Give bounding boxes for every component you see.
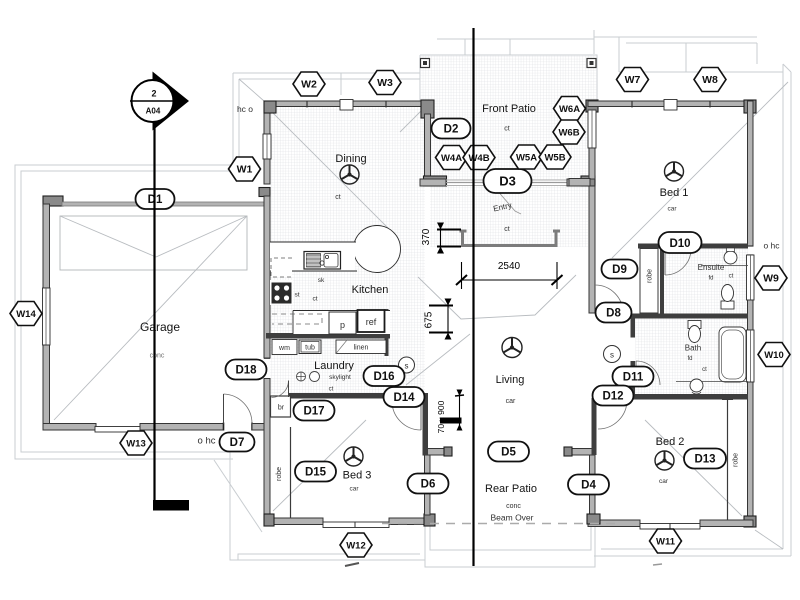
svg-text:wm: wm (278, 345, 290, 352)
hip bed1 from roof corner (612, 82, 788, 258)
door tag D17 (294, 401, 335, 421)
door tag D6 (408, 474, 449, 494)
window center ticks bed1 (631, 101, 633, 108)
front patio post right (587, 59, 596, 68)
entry leader line (496, 189, 521, 214)
window tag W10 (758, 343, 790, 367)
bathtub (719, 327, 746, 382)
rear wall left segment (423, 449, 451, 456)
rear wall left end cap (444, 447, 452, 456)
patio left wall (425, 114, 431, 180)
svg-text:robe: robe (276, 467, 283, 481)
svg-text:D12: D12 (602, 391, 623, 403)
entry return wall (569, 179, 590, 187)
door tag D18 (226, 360, 267, 380)
pantry box (329, 312, 356, 334)
bed1 bottom wall left of D10 (638, 244, 662, 249)
hip bed2 (645, 420, 742, 516)
door tag D14 (384, 387, 425, 407)
window W1 frame (263, 134, 271, 159)
rear patio beam dashed line (382, 523, 618, 525)
door tag D12 (593, 386, 634, 406)
garage envelope V right (156, 216, 247, 257)
WALLS (43, 100, 757, 530)
svg-text:W5B: W5B (544, 153, 565, 164)
lower cabinet band (293, 310, 390, 334)
front wall left segment (420, 179, 446, 186)
door D11 opening (630, 338, 636, 361)
dim 675 living edge (424, 299, 454, 340)
house left wall mid piece (264, 196, 270, 358)
window W6A W6B frame (588, 110, 596, 148)
svg-text:car: car (659, 478, 669, 485)
svg-text:70 x 900: 70 x 900 (436, 400, 446, 433)
svg-text:2: 2 (151, 89, 156, 99)
eave bottom right (601, 548, 783, 550)
svg-text:skylight: skylight (329, 374, 351, 381)
bed2 bottom wall left part (588, 520, 640, 527)
door D10 swing in ensuite (665, 249, 691, 275)
svg-text:conc: conc (506, 503, 521, 510)
house left wall top piece (264, 101, 270, 134)
front patio post left (421, 59, 430, 68)
laundry door leaf (288, 381, 290, 398)
patio top-left corner block (421, 100, 434, 118)
svg-text:linen: linen (354, 345, 369, 352)
living tray ceiling (418, 275, 576, 319)
window mullion W2-W3 (340, 100, 353, 111)
svg-text:W14: W14 (16, 309, 36, 320)
svg-text:ct: ct (312, 296, 317, 303)
door D17 br swing (272, 381, 289, 398)
laundry right wall (385, 309, 389, 356)
svg-text:D15: D15 (305, 467, 327, 479)
dim 2540 entry width (456, 261, 563, 289)
svg-text:Bed 2: Bed 2 (656, 436, 685, 448)
front patio slab edge (420, 55, 597, 101)
svg-text:hc o: hc o (237, 104, 253, 114)
svg-text:D6: D6 (421, 479, 436, 491)
HATCH-FLOORS (270, 55, 748, 395)
cooktop margin (270, 280, 293, 305)
bath basin (690, 379, 703, 392)
garage left wall upper (43, 204, 50, 288)
door tag D7 (220, 433, 255, 452)
ensuite bath divider wall (633, 314, 748, 319)
garage inner rectangle (60, 216, 247, 270)
svg-text:ct: ct (329, 387, 334, 393)
svg-text:A04: A04 (146, 107, 161, 116)
svg-text:Rear Patio: Rear Patio (485, 483, 537, 495)
stray dash under W12 (345, 563, 359, 566)
bed2 robe top nib (722, 399, 733, 401)
svg-text:Bath: Bath (685, 344, 701, 353)
window tag W1 (229, 157, 261, 181)
svg-text:D8: D8 (606, 308, 621, 320)
sink right bowl (324, 254, 338, 268)
front wall right segment (567, 179, 589, 186)
section marker diameter line (130, 100, 177, 102)
door D7 opening jambs (223, 423, 225, 431)
window W9 frame (747, 255, 755, 300)
right wall mid (748, 300, 754, 330)
bed3 bottom wall left part (264, 518, 323, 525)
svg-text:Living: Living (496, 374, 525, 386)
svg-text:br: br (278, 405, 285, 412)
section line 2 vertical (472, 28, 474, 566)
window tag W14 (10, 302, 42, 326)
bed3 robe line (290, 427, 292, 518)
rear patio slab edges (425, 449, 595, 567)
svg-text:robe: robe (647, 269, 654, 283)
door tag D9 (602, 260, 638, 279)
garage long diagonal (54, 216, 247, 420)
garage bottom wall stub right of D7 (252, 424, 264, 431)
door D12 swing into bed2 (598, 400, 627, 429)
svg-text:W4A: W4A (441, 153, 462, 164)
door tag D13 (684, 449, 726, 469)
kitchen island round end (354, 226, 401, 273)
door tag D1 (136, 189, 175, 209)
eave bottom under bed3/rear patio (214, 460, 262, 532)
svg-text:Beam Over: Beam Over (491, 513, 534, 523)
ceiling fan bed2 (655, 451, 674, 470)
window tag W11 (650, 529, 682, 553)
smoke alarm living (399, 357, 415, 373)
bed2 bottom wall right part (700, 520, 753, 527)
hatch bath (633, 317, 748, 395)
svg-text:W7: W7 (625, 74, 641, 86)
svg-text:D16: D16 (373, 371, 394, 383)
garage top-left corner (43, 196, 63, 206)
DOOR-ARCS (224, 189, 692, 430)
svg-text:Laundry: Laundry (314, 360, 354, 372)
rear wall right segment (565, 449, 593, 456)
ensuite toilet (721, 301, 734, 309)
DIMENSIONS (421, 223, 563, 434)
svg-text:2540: 2540 (498, 261, 521, 272)
hatch ensuite (663, 248, 748, 315)
dining top wall band (264, 101, 434, 107)
rear patio right wall (590, 455, 596, 515)
svg-text:W4B: W4B (468, 153, 489, 164)
svg-text:D14: D14 (393, 392, 415, 404)
door tag D2 (432, 119, 471, 139)
FAN-SYMBOLS (340, 162, 684, 470)
garage left wall lower (43, 345, 50, 426)
ensuite basin counter (701, 265, 748, 267)
section line 1 end bar (153, 500, 189, 511)
kitchen sink unit (304, 252, 341, 270)
svg-text:s: s (405, 362, 409, 371)
laundry tub box (299, 340, 321, 354)
svg-text:tub: tub (305, 345, 315, 352)
bed1 bottom wall right of D10 (690, 244, 748, 249)
svg-text:fd: fd (687, 356, 692, 362)
garage envelope V left (60, 216, 156, 257)
corner nib right of D14 (417, 393, 428, 399)
living right wall (592, 398, 597, 455)
hip corner bottom right eave (755, 530, 783, 549)
ROOM-TEXT (140, 103, 780, 523)
window tag W4A (436, 146, 468, 170)
svg-text:Kitchen: Kitchen (352, 284, 389, 296)
svg-text:fd: fd (708, 276, 713, 282)
svg-text:D10: D10 (669, 238, 690, 250)
entry step (460, 231, 561, 246)
hatch entry (430, 185, 588, 247)
HIP-LINES (239, 79, 788, 549)
right wall lower (748, 382, 754, 526)
door D11 swing in bath (636, 361, 660, 385)
svg-text:ref: ref (366, 317, 377, 327)
eave right side verticals (782, 64, 784, 549)
cooktop (272, 283, 292, 304)
window W13 offset sash (95, 427, 141, 433)
svg-text:D7: D7 (230, 437, 245, 449)
hip bed3 (273, 420, 366, 511)
svg-text:p: p (340, 320, 345, 330)
section marker triangle (153, 72, 190, 131)
svg-text:W3: W3 (377, 77, 393, 89)
window tag W2 (293, 72, 325, 96)
window tag W4B (463, 146, 495, 170)
svg-text:o hc: o hc (763, 241, 780, 251)
hip corner top left eave (239, 79, 264, 101)
svg-text:W8: W8 (702, 74, 718, 86)
svg-text:robe: robe (733, 453, 740, 467)
svg-text:car: car (349, 486, 359, 493)
bed1 top wall band (588, 101, 753, 107)
bath hall wall upper (631, 314, 636, 338)
linen cupboard (336, 340, 386, 354)
svg-text:ct: ct (335, 194, 341, 201)
svg-text:W11: W11 (656, 537, 676, 548)
svg-text:Dining: Dining (335, 153, 366, 165)
bed3 bottom wall right part (389, 518, 433, 525)
svg-text:675: 675 (424, 311, 435, 328)
laundry top wall (266, 333, 390, 339)
svg-text:D4: D4 (581, 480, 596, 492)
house left wall bottom piece (264, 379, 270, 527)
garage door D1 leaf line (62, 202, 264, 206)
svg-text:car: car (667, 206, 677, 213)
svg-text:370: 370 (421, 228, 432, 245)
svg-text:Front Patio: Front Patio (482, 103, 536, 115)
o hc opening right wall (747, 245, 754, 247)
door D3 threshold line (446, 179, 567, 181)
bath bottom bed2 top wall (631, 394, 749, 400)
bath toilet (688, 321, 701, 329)
kitchen sink counter (270, 242, 355, 271)
bed3 top wall (288, 393, 387, 399)
door tag D5 (488, 442, 529, 462)
svg-text:D9: D9 (612, 264, 627, 276)
ceiling fan bed1 (665, 162, 684, 181)
eave outline garage block inner (21, 79, 239, 452)
door tag D16 (364, 366, 405, 386)
window tag W5A (511, 145, 543, 169)
eave top right block (619, 71, 783, 73)
svg-text:Ensuite: Ensuite (698, 263, 725, 272)
ensuite left wall (660, 249, 664, 315)
door D8 swing in hall (595, 285, 623, 313)
svg-text:D3: D3 (499, 174, 516, 189)
svg-text:o hc: o hc (198, 436, 216, 447)
svg-text:ct: ct (504, 226, 510, 233)
svg-text:D5: D5 (501, 447, 516, 459)
window W10 frame (747, 330, 755, 382)
skylight circles (297, 372, 306, 381)
window tag W5B (539, 145, 571, 169)
kitchen bench niche dashed (271, 258, 292, 277)
bed1 left wall top corner (586, 100, 598, 112)
window mullion W7-W8 (664, 100, 677, 111)
fridge box (358, 310, 385, 332)
house left wall below W1 (264, 159, 270, 184)
door tag D4 (568, 475, 609, 495)
svg-text:s: s (610, 351, 614, 360)
window tag W6A (554, 97, 586, 121)
window tag W8 (694, 68, 726, 92)
svg-text:Garage: Garage (140, 320, 180, 334)
hatch front patio lower / entry court (430, 102, 589, 180)
window tag W9 (755, 266, 787, 290)
dishwasher dashed (272, 314, 322, 324)
house bottom-right corner (744, 516, 756, 527)
svg-text:D18: D18 (235, 365, 257, 377)
window tag W3 (369, 71, 401, 95)
window tag W13 (120, 431, 152, 455)
rear wall right end cap (564, 447, 572, 456)
svg-text:sk: sk (318, 277, 325, 284)
window center ticks (306, 101, 308, 108)
bed3 bottom-right corner (424, 514, 435, 526)
hip hall to living (406, 334, 470, 385)
section marker circle (132, 80, 174, 122)
eave over front patio (437, 38, 594, 40)
bed3 bottom-left corner (264, 514, 274, 526)
ensuite basin (724, 251, 737, 264)
dim 70x900 niche (436, 390, 464, 434)
svg-text:Bed 3: Bed 3 (343, 470, 372, 482)
door D14 swing into bed3 (392, 401, 421, 430)
window tag W12 (340, 533, 372, 557)
window tag W7 (617, 68, 649, 92)
svg-text:D13: D13 (694, 454, 715, 466)
svg-text:W13: W13 (126, 439, 146, 450)
svg-text:Bed 1: Bed 1 (660, 187, 689, 199)
bed1 left wall upper (589, 148, 595, 179)
door tag D11 (613, 367, 654, 387)
hatch dining kitchen laundry hall (270, 106, 425, 394)
svg-text:D2: D2 (444, 124, 459, 136)
bed2 robe line (727, 400, 729, 521)
svg-text:D17: D17 (303, 406, 324, 418)
bed1 left wall mid (589, 186, 595, 313)
svg-text:W5A: W5A (516, 153, 537, 164)
window tag W6B (553, 120, 585, 144)
svg-text:W6A: W6A (559, 104, 580, 115)
front wall right corner (581, 176, 595, 186)
ceiling fan living (502, 338, 522, 358)
smoke alarm hall bath (604, 346, 621, 363)
bath hall wall lower (631, 361, 636, 395)
svg-text:ct: ct (702, 367, 707, 373)
hip entry left (400, 111, 421, 132)
door tag D10 (659, 232, 702, 253)
stray dash under W11 (653, 564, 662, 565)
house top-right corner (744, 100, 756, 113)
SECTION-LINES (130, 28, 474, 566)
door D18 opening (264, 358, 270, 360)
svg-text:ct: ct (504, 126, 510, 133)
svg-text:car: car (506, 398, 516, 405)
window W14 frame (43, 288, 51, 345)
svg-text:conc: conc (150, 353, 165, 360)
section line 1 vertical (153, 121, 155, 503)
svg-text:D11: D11 (623, 372, 644, 384)
door tag D15 (295, 462, 336, 482)
TAGS (10, 68, 790, 558)
FIXTURES (270, 226, 748, 567)
window W11 offset sash (640, 524, 700, 530)
svg-text:st: st (294, 292, 299, 299)
bed1 robe (640, 249, 658, 314)
ceiling fan dining (340, 165, 359, 184)
door tag D8 (596, 303, 632, 323)
eave top over dining (233, 72, 420, 74)
window W12 offset sash (323, 522, 389, 528)
eave outline garage block outer (15, 73, 233, 459)
svg-text:W12: W12 (346, 541, 366, 552)
hatch front patio upper (420, 55, 597, 102)
svg-text:W9: W9 (763, 273, 779, 285)
svg-text:W6B: W6B (558, 128, 579, 139)
right wall upper (748, 101, 754, 246)
svg-text:ct: ct (729, 274, 734, 280)
door tag D3 (484, 169, 532, 193)
bath basin counter (676, 381, 748, 383)
svg-text:W1: W1 (237, 164, 253, 176)
patio left wall bottom corner (424, 176, 447, 186)
laundry wm box (272, 340, 297, 355)
rear patio left wall (425, 455, 431, 515)
garage bottom wall right (140, 424, 224, 431)
ceiling fan bed3 (344, 447, 363, 466)
dim 370 entry step (421, 223, 461, 254)
door D7 swing into garage (224, 394, 253, 424)
sink left bowl striped (307, 254, 321, 268)
hip dining (268, 108, 390, 230)
svg-text:W2: W2 (301, 79, 317, 91)
small eave ticks top (340, 73, 342, 95)
rear patio right corner (587, 514, 600, 524)
dining top wall left corner (264, 101, 276, 113)
house left wall corner at garage (259, 188, 270, 197)
GARAGE-TRUSS (54, 216, 247, 420)
svg-text:W10: W10 (764, 350, 784, 361)
living left wall (423, 396, 429, 455)
bed3 br closet (271, 396, 291, 417)
garage bottom wall left (43, 424, 96, 431)
